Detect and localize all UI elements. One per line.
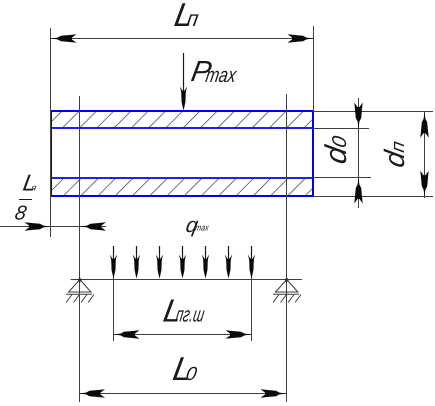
label Lya / 8 (21, 170, 40, 196)
svg-text:0: 0 (184, 364, 199, 385)
right support (273, 278, 301, 302)
label dn rotated (379, 138, 410, 170)
d0 dim vertical (358, 98, 360, 208)
svg-text:max: max (194, 223, 210, 233)
tube outline (blue) (51, 111, 313, 196)
Lp arrows (51, 34, 77, 42)
svg-text:max: max (204, 64, 239, 87)
hatch bottom wall (52, 179, 312, 196)
hatch top wall (52, 112, 312, 128)
L0 arrows (79, 389, 105, 397)
label Pmax (189, 56, 241, 88)
Lya/8 arrows (outside) (25, 222, 51, 230)
ext bore bottom right (313, 177, 371, 179)
label L0 (170, 350, 201, 387)
label Lpgsh (161, 293, 209, 329)
d0 arrows (outside pointing in) (354, 103, 362, 129)
Lpgsh ext left (113, 246, 115, 341)
label qmax (184, 214, 211, 237)
dn arrows (inside pointing out) (420, 112, 428, 138)
svg-text:8: 8 (13, 202, 28, 224)
Lya/8 dim line (0, 226, 106, 228)
beam line (71, 279, 302, 281)
label Lp (172, 0, 203, 33)
Lp dim line (51, 38, 314, 40)
svg-text:пг.ш: пг.ш (174, 304, 206, 327)
ext bore top right (313, 128, 369, 130)
tube inner bore line top (51, 127, 313, 129)
left support axis (79, 96, 81, 402)
L0 dim line (79, 393, 287, 395)
left support (66, 278, 94, 302)
ext tube bottom right (313, 196, 433, 198)
Lpgsh dim line (114, 334, 252, 336)
svg-text:п: п (388, 139, 409, 154)
right support axis (286, 94, 288, 402)
dn dim vertical (424, 112, 426, 198)
Lpgsh ext right (251, 246, 253, 341)
tube inner bore line bottom (51, 177, 313, 179)
label d0 rotated (320, 133, 353, 166)
Lpgsh arrows (114, 330, 140, 338)
ext tube top right (313, 111, 433, 113)
fraction bar (19, 199, 32, 201)
ext line tube left (50, 28, 52, 237)
ext line tube right (313, 26, 315, 112)
